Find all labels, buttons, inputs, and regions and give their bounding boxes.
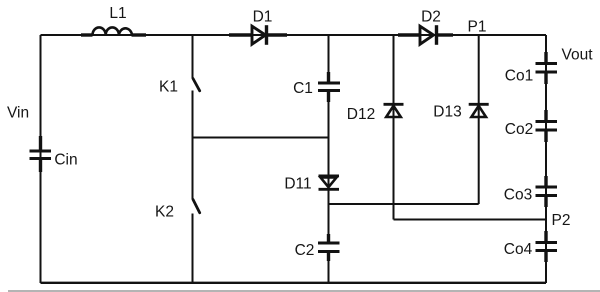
svg-text:L1: L1 (109, 5, 126, 22)
svg-text:D13: D13 (433, 104, 461, 121)
svg-text:D1: D1 (253, 9, 273, 26)
svg-text:C2: C2 (295, 242, 315, 259)
svg-text:Vout: Vout (561, 47, 593, 64)
svg-text:P2: P2 (552, 212, 571, 229)
svg-text:D12: D12 (347, 106, 375, 123)
svg-text:D2: D2 (421, 9, 441, 26)
svg-text:D11: D11 (284, 176, 311, 193)
svg-text:C1: C1 (293, 80, 313, 97)
svg-text:Co4: Co4 (504, 241, 533, 258)
svg-text:Co2: Co2 (505, 121, 533, 138)
svg-text:Co3: Co3 (504, 187, 532, 204)
svg-text:Co1: Co1 (505, 68, 533, 85)
svg-text:P1: P1 (468, 19, 487, 36)
svg-text:Cin: Cin (54, 152, 77, 169)
svg-text:Vin: Vin (7, 105, 29, 122)
svg-text:K1: K1 (159, 79, 178, 96)
svg-text:K2: K2 (155, 204, 174, 221)
